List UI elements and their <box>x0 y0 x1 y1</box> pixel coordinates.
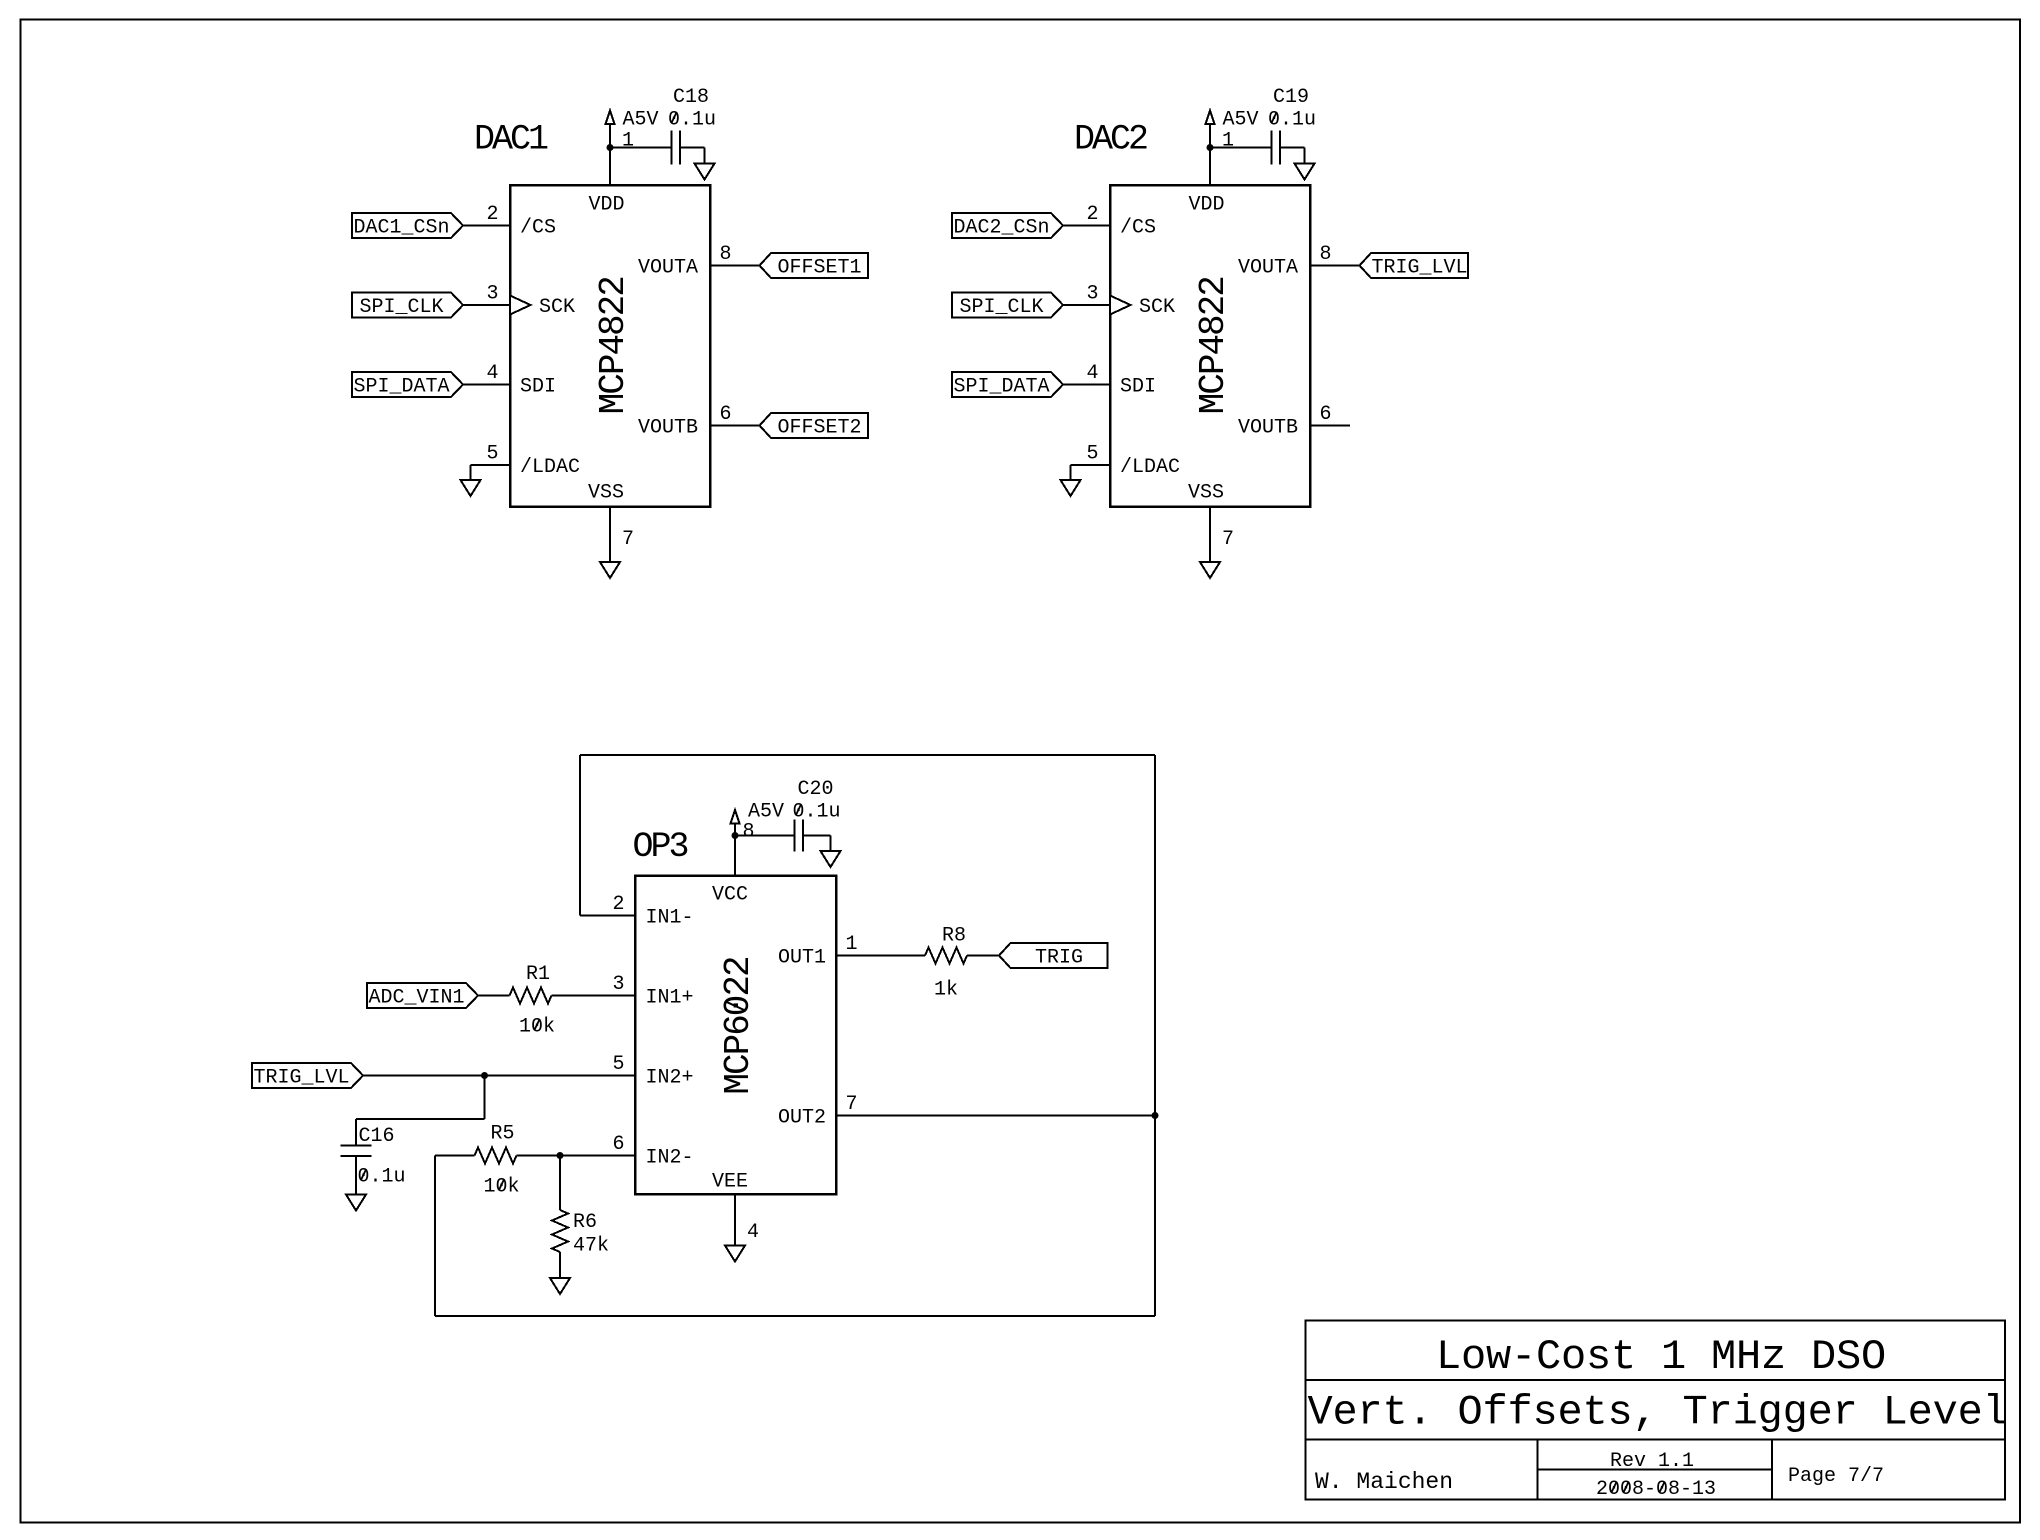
ground at R6 <box>550 1278 570 1294</box>
svg-text:OFFSET2: OFFSET2 <box>777 417 861 440</box>
svg-text:DAC2_CSn: DAC2_CSn <box>953 217 1049 240</box>
wire R8 to TRIG <box>967 955 999 957</box>
junction node IN2- <box>557 1152 564 1159</box>
svg-text:SDI: SDI <box>1120 376 1156 399</box>
svg-text:MCP4822: MCP4822 <box>1193 277 1234 415</box>
DAC1 pin numbers <box>486 130 731 552</box>
svg-text:/LDAC: /LDAC <box>520 456 580 479</box>
svg-text:OP3: OP3 <box>633 827 688 867</box>
wire C16 to ground <box>355 1156 357 1195</box>
net label ADC_VIN1 <box>367 983 478 1010</box>
wire SCK <box>1063 304 1110 306</box>
net label OFFSET2 <box>760 413 869 440</box>
resistor R1 10k <box>510 963 556 1039</box>
IC DAC1 MCP4822 <box>510 185 710 507</box>
net label OFFSET1 <box>760 253 869 280</box>
svg-text:6: 6 <box>1320 403 1332 426</box>
power symbol A5V (DAC2) <box>1206 111 1215 148</box>
svg-text:SCK: SCK <box>539 296 575 319</box>
svg-text:VCC: VCC <box>712 884 748 907</box>
capacitor C19 0.1u <box>1223 86 1317 165</box>
svg-text:OFFSET1: OFFSET1 <box>777 257 861 280</box>
svg-text:Rev 1.1: Rev 1.1 <box>1610 1450 1694 1473</box>
svg-text:4: 4 <box>486 362 498 385</box>
svg-text:8: 8 <box>743 821 755 844</box>
wire C20 to ground <box>803 836 831 852</box>
svg-text:Vert. Offsets, Trigger Level: Vert. Offsets, Trigger Level <box>1308 1389 2008 1437</box>
wire IN2+ pin 5 <box>363 1075 635 1077</box>
svg-text:DAC2: DAC2 <box>1074 120 1147 160</box>
wire C18 to ground <box>680 148 705 164</box>
svg-text:VSS: VSS <box>588 482 624 505</box>
svg-text:VDD: VDD <box>1188 194 1224 217</box>
svg-text:C16: C16 <box>359 1125 395 1148</box>
junction node VDD <box>607 144 614 151</box>
wire R5 to IN2- pin 6 <box>517 1155 636 1157</box>
ground at C18 <box>695 164 715 180</box>
wire OUT1 pin 1 to R8 <box>836 955 925 957</box>
svg-text:C20: C20 <box>797 778 833 801</box>
wire VCC pin 8 <box>734 836 736 876</box>
svg-text:7: 7 <box>1222 528 1234 551</box>
svg-text:TRIG: TRIG <box>1035 947 1083 970</box>
wire /CS <box>1063 225 1110 227</box>
svg-text:SPI_DATA: SPI_DATA <box>353 376 449 399</box>
svg-text:1k: 1k <box>934 979 958 1002</box>
svg-text:VOUTB: VOUTB <box>638 417 698 440</box>
svg-text:4: 4 <box>747 1221 759 1244</box>
wire VSS pin 7 to ground <box>609 507 611 563</box>
DAC2 pin numbers <box>1086 130 1331 552</box>
net label DAC2_CSn <box>952 213 1063 240</box>
resistor R6 47k <box>552 1210 609 1258</box>
svg-text:TRIG_LVL: TRIG_LVL <box>253 1067 349 1090</box>
ground at C16 <box>346 1195 366 1211</box>
svg-text:IN1-: IN1- <box>646 907 694 930</box>
wire to C20 <box>735 835 795 837</box>
OP3 pin numbers <box>612 821 857 1245</box>
ground at VEE <box>725 1246 745 1262</box>
svg-text:1: 1 <box>622 130 634 153</box>
svg-text:8: 8 <box>1320 243 1332 266</box>
svg-text:7: 7 <box>622 528 634 551</box>
wire VOUTB pin 6 (DAC1) <box>710 425 760 427</box>
svg-text:VEE: VEE <box>712 1171 748 1194</box>
wire SCK <box>463 304 510 306</box>
wire junction to R6 <box>559 1156 561 1211</box>
svg-text:1: 1 <box>846 933 858 956</box>
junction node IN2+ <box>481 1072 488 1079</box>
wire VEE pin 4 to ground <box>734 1194 736 1246</box>
svg-text:R8: R8 <box>942 925 966 948</box>
wire VOUTA pin 8 <box>1310 265 1360 267</box>
IC DAC2 MCP4822 <box>1110 185 1310 507</box>
svg-text:2: 2 <box>612 893 624 916</box>
svg-text:SPI_DATA: SPI_DATA <box>953 376 1049 399</box>
svg-text:10k: 10k <box>519 1016 555 1039</box>
svg-text:A5V: A5V <box>1223 109 1259 132</box>
wire feedback top rail <box>580 755 1155 916</box>
net label SPI_DATA <box>952 372 1063 399</box>
svg-text:VOUTB: VOUTB <box>1238 417 1298 440</box>
svg-text:W. Maichen: W. Maichen <box>1315 1469 1453 1495</box>
resistor R5 10k <box>475 1123 520 1199</box>
wire left feedback vertical <box>434 1156 436 1317</box>
wire VSS pin 7 to ground <box>1209 507 1211 563</box>
svg-text:4: 4 <box>1086 362 1098 385</box>
wire to C19 <box>1210 147 1272 149</box>
power symbol A5V (DAC1) <box>606 111 615 148</box>
junction node VDD <box>1207 144 1214 151</box>
svg-text:0.1u: 0.1u <box>793 801 841 824</box>
svg-text:3: 3 <box>486 283 498 306</box>
svg-text:R1: R1 <box>526 963 550 986</box>
wire to R5 <box>435 1155 475 1157</box>
wire VOUTB pin 6 stub (DAC2) <box>1310 425 1350 427</box>
svg-text:0.1u: 0.1u <box>1268 109 1316 132</box>
wire C19 to ground <box>1280 148 1305 164</box>
wire ADC_VIN1 to R1 <box>478 995 510 997</box>
svg-text:A5V: A5V <box>623 109 659 132</box>
junction node VCC <box>732 832 739 839</box>
wire right feedback vertical <box>1154 755 1156 1316</box>
capacitor C16 0.1u <box>341 1125 406 1189</box>
net label TRIG_LVL (DAC2 VOUTA) <box>1360 253 1469 280</box>
svg-text:SCK: SCK <box>1139 296 1175 319</box>
svg-text:A5V: A5V <box>748 801 784 824</box>
refdes label DAC1 <box>474 120 548 160</box>
net label DAC1_CSn <box>352 213 463 240</box>
svg-text:OUT1: OUT1 <box>778 947 826 970</box>
svg-text:5: 5 <box>486 443 498 466</box>
ground at C20 <box>821 851 841 867</box>
wire R1 to IN1+ pin 3 <box>552 995 636 997</box>
svg-text:0.1u: 0.1u <box>358 1166 406 1189</box>
wire VDD pin 1 <box>609 148 611 186</box>
svg-text:VDD: VDD <box>588 194 624 217</box>
svg-text:/LDAC: /LDAC <box>1120 456 1180 479</box>
wire VOUTA pin 8 <box>710 265 760 267</box>
svg-text:IN2+: IN2+ <box>646 1067 694 1090</box>
wire OUT2 pin 7 <box>836 1115 1155 1117</box>
wire /LDAC to ground <box>1071 465 1111 480</box>
svg-text:10k: 10k <box>483 1176 519 1199</box>
svg-text:/CS: /CS <box>1120 217 1156 240</box>
IC OP3 MCP6022 <box>635 876 836 1195</box>
svg-text:VOUTA: VOUTA <box>1238 257 1298 280</box>
svg-text:5: 5 <box>1086 443 1098 466</box>
wire IN1- pin 2 <box>580 915 635 917</box>
svg-text:DAC1_CSn: DAC1_CSn <box>353 217 449 240</box>
svg-text:6: 6 <box>720 403 732 426</box>
junction node OUT2 <box>1152 1112 1159 1119</box>
refdes label OP3 <box>633 827 688 867</box>
power symbol A5V (OP3) <box>731 810 740 836</box>
ground at VSS <box>600 562 620 578</box>
ground at C19 <box>1295 164 1315 180</box>
title block <box>1306 1321 2008 1502</box>
net label SPI_CLK <box>352 293 463 320</box>
svg-text:MCP4822: MCP4822 <box>593 277 634 415</box>
refdes label DAC2 <box>1074 120 1147 160</box>
svg-text:3: 3 <box>612 973 624 996</box>
wire junction to C16 <box>356 1076 485 1146</box>
svg-text:VOUTA: VOUTA <box>638 257 698 280</box>
svg-text:R6: R6 <box>573 1211 597 1234</box>
wire SDI <box>1063 384 1110 386</box>
svg-text:SDI: SDI <box>520 376 556 399</box>
capacitor C20 0.1u <box>748 778 841 852</box>
svg-text:2: 2 <box>486 203 498 226</box>
svg-text:R5: R5 <box>490 1123 514 1146</box>
svg-text:Low-Cost 1 MHz DSO: Low-Cost 1 MHz DSO <box>1436 1333 1886 1381</box>
wire /LDAC to ground <box>471 465 511 480</box>
svg-text:6: 6 <box>612 1133 624 1156</box>
svg-text:SPI_CLK: SPI_CLK <box>359 296 443 319</box>
svg-text:0.1u: 0.1u <box>668 109 716 132</box>
ground at /LDAC <box>461 480 481 496</box>
svg-text:3: 3 <box>1086 283 1098 306</box>
svg-text:IN2-: IN2- <box>646 1147 694 1170</box>
svg-text:DAC1: DAC1 <box>474 120 548 160</box>
wire bottom feedback rail <box>435 1315 1155 1317</box>
svg-text:OUT2: OUT2 <box>778 1107 826 1130</box>
svg-text:/CS: /CS <box>520 217 556 240</box>
svg-text:Page 7/7: Page 7/7 <box>1788 1465 1884 1488</box>
svg-text:SPI_CLK: SPI_CLK <box>959 296 1043 319</box>
capacitor C18 0.1u <box>623 86 717 165</box>
svg-text:7: 7 <box>846 1093 858 1116</box>
svg-text:1: 1 <box>1222 130 1234 153</box>
svg-text:2: 2 <box>1086 203 1098 226</box>
net label SPI_DATA <box>352 372 463 399</box>
wire VDD pin 1 <box>1209 148 1211 186</box>
svg-text:VSS: VSS <box>1188 482 1224 505</box>
wire SDI <box>463 384 510 386</box>
ground at VSS <box>1200 562 1220 578</box>
net label TRIG_LVL (OP3) <box>252 1063 363 1090</box>
svg-text:8: 8 <box>720 243 732 266</box>
resistor R8 1k <box>925 925 967 1002</box>
svg-text:MCP6022: MCP6022 <box>718 957 759 1095</box>
wire /CS <box>463 225 510 227</box>
svg-text:TRIG_LVL: TRIG_LVL <box>1371 257 1467 280</box>
ground at /LDAC <box>1061 480 1081 496</box>
wire R6 to ground <box>559 1252 561 1278</box>
svg-text:IN1+: IN1+ <box>646 987 694 1010</box>
svg-text:C19: C19 <box>1273 86 1309 109</box>
svg-text:47k: 47k <box>573 1235 609 1258</box>
svg-text:ADC_VIN1: ADC_VIN1 <box>368 987 464 1010</box>
svg-text:C18: C18 <box>673 86 709 109</box>
svg-text:5: 5 <box>612 1053 624 1076</box>
net label TRIG <box>999 943 1108 970</box>
wire to C18 <box>610 147 672 149</box>
net label SPI_CLK <box>952 293 1063 320</box>
svg-text:2008-08-13: 2008-08-13 <box>1596 1478 1716 1501</box>
